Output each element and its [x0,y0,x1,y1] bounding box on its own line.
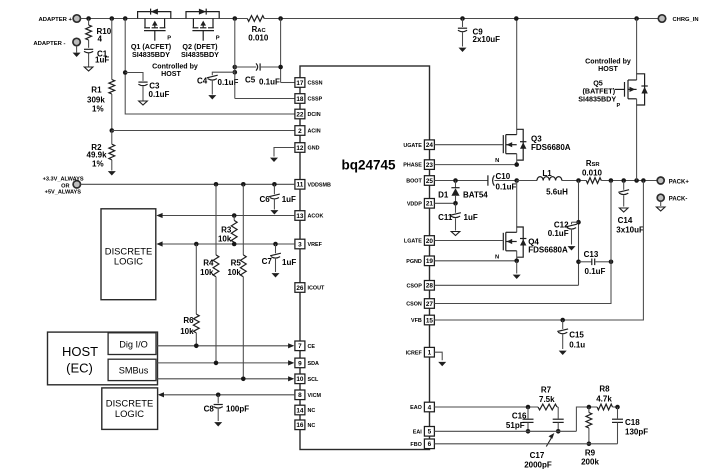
IC U1 bq24745 body [300,66,430,450]
wire VDDP pin 21 [434,201,457,206]
resistor R3 10k [218,213,237,244]
svg-text:ADAPTER -: ADAPTER - [33,41,65,47]
pin 24 UGATE [403,140,434,150]
svg-text:NC: NC [308,408,316,414]
svg-text:SI4835BDY: SI4835BDY [132,50,170,59]
resistor R5 10k [227,182,246,379]
capacitor C14 3x10uF with ground [616,181,644,235]
wire SCL from SMBus to pin 10 [156,376,294,381]
capacitor C17 2000pF [524,407,563,469]
svg-text:PHASE: PHASE [403,163,422,169]
svg-text:LGATE: LGATE [404,239,422,245]
pin 5 EAI [413,427,435,437]
wire EAI pin 5 [434,405,597,432]
inductor L1 5.6uH [517,169,587,196]
resistor R8 4.7k [596,384,620,410]
block HOST (EC) [48,332,158,385]
wire CSON pin 27 to sense- [434,181,611,304]
capacitor C5 [233,63,281,86]
capacitor C8 100pF with ground [204,395,250,427]
svg-text:VICM: VICM [308,393,322,399]
svg-text:VREF: VREF [308,242,323,248]
svg-text:R8: R8 [599,384,610,393]
capacitor C15 0.1u with ground [557,320,585,355]
svg-text:DISCRETE: DISCRETE [106,397,153,408]
svg-text:+5V_ALWAYS: +5V_ALWAYS [45,190,82,196]
wire VDDSMB rail to pin 11 [81,183,295,185]
svg-text:1uF: 1uF [282,195,296,204]
wire ACOK to discrete logic [156,213,295,218]
pin 12 GND [295,143,320,153]
svg-text:(EC): (EC) [66,361,93,376]
svg-text:Dig I/O: Dig I/O [119,340,148,350]
svg-text:SCL: SCL [308,377,319,383]
svg-text:16: 16 [296,422,304,429]
svg-text:R5: R5 [231,258,242,267]
svg-text:13: 13 [296,213,304,220]
wire PGND pin 19 and ground [434,259,520,280]
svg-text:10k: 10k [227,268,241,277]
svg-text:C7: C7 [262,257,273,266]
svg-text:NC: NC [308,423,316,429]
svg-text:7.5k: 7.5k [539,395,555,404]
svg-text:P: P [617,103,621,109]
pin 22 DCIN [295,109,321,119]
pin 1 ICREF [406,347,435,357]
svg-text:0.1uF: 0.1uF [149,90,170,99]
terminal +3.3V_ALWAYS OR +5V_ALWAYS [43,176,84,195]
pin 25 BOOT [406,176,434,186]
svg-text:24: 24 [426,142,434,149]
label Controlled by HOST (left) [152,62,198,78]
svg-text:1%: 1% [92,105,104,114]
wire VREF to discrete logic [156,241,295,246]
svg-text:PGND: PGND [406,259,422,265]
capacitor C6 1uF with ground [259,182,296,215]
pin 10 SCL [295,374,319,384]
terminal PACK+ [657,177,689,185]
svg-text:DISCRETE: DISCRETE [105,245,152,256]
svg-text:14: 14 [296,407,304,414]
svg-text:bq24745: bq24745 [341,158,396,173]
svg-text:Controlled by: Controlled by [585,57,631,65]
ground at pin 1 ICREF [434,352,446,366]
svg-text:SMBus: SMBus [119,365,149,375]
svg-text:CSSP: CSSP [308,97,323,103]
svg-text:BOOT: BOOT [406,179,422,185]
transistor Q5 (BATFET) SI4835BDY [578,19,648,181]
pin 3 VREF [295,239,323,249]
svg-text:VDDSMB: VDDSMB [308,182,331,188]
svg-text:N: N [495,254,499,260]
wire CSSN vertical x=280.6 [278,16,295,82]
svg-text:7: 7 [298,343,302,350]
svg-text:C13: C13 [584,250,599,259]
svg-text:25: 25 [426,178,434,185]
svg-text:26: 26 [296,285,304,292]
svg-text:ACIN: ACIN [308,129,321,135]
svg-text:HOST: HOST [161,70,181,78]
svg-text:0.1uF: 0.1uF [585,267,606,276]
resistor Rac 0.010 [247,16,269,43]
capacitor C12 0.1uF with ground [548,181,581,286]
svg-text:17: 17 [296,80,304,87]
svg-text:9: 9 [298,360,302,367]
svg-text:FDS6680A: FDS6680A [531,143,571,152]
svg-text:51pF: 51pF [506,421,525,430]
node ACIN junction [110,128,115,133]
svg-text:R4: R4 [203,258,214,267]
svg-text:C8: C8 [204,405,215,414]
svg-text:100pF: 100pF [226,405,249,414]
svg-text:ICOUT: ICOUT [308,286,325,292]
svg-text:BAT54: BAT54 [463,190,488,199]
svg-text:CSSN: CSSN [308,81,323,87]
svg-text:5: 5 [428,429,432,436]
pin 2 ACIN [295,126,321,136]
transistor Q4 FDS6680A [434,181,568,261]
pin 18 CSSP [295,94,323,104]
wire FBO pin 6 [434,443,617,445]
svg-text:FDS6680A: FDS6680A [528,245,568,254]
pin 26 ICOUT [295,283,325,293]
pin 16 NC [295,420,315,430]
svg-text:4: 4 [98,35,103,44]
svg-text:0.1u: 0.1u [569,340,585,349]
pin 15 VFB [411,315,434,325]
wire SDA from SMBus to pin 9 [156,360,294,365]
svg-text:20: 20 [426,238,434,245]
svg-text:2: 2 [298,128,302,135]
resistor R6 10k [180,244,199,346]
svg-text:LOGIC: LOGIC [114,256,143,267]
svg-text:22: 22 [296,111,304,118]
transistor Q3 FDS6680A [434,16,570,164]
svg-text:10: 10 [296,376,304,383]
svg-text:4: 4 [428,404,432,411]
block DISCRETE LOGIC (lower) [102,388,158,430]
wire VFB pin 15 to PACK+ [434,181,643,323]
node PACK+ rail dots [609,178,614,183]
svg-text:HOST: HOST [598,65,618,73]
svg-text:2x10uF: 2x10uF [473,35,501,44]
svg-text:SDA: SDA [308,361,319,367]
transistor Q1 (ACFET) SI4835BDY [131,9,172,59]
svg-text:FBO: FBO [410,442,421,448]
svg-text:3: 3 [298,241,302,248]
pin 6 FBO [410,439,434,449]
resistor R7 7.5k [538,386,558,410]
capacitor C18 130pF [612,407,648,444]
svg-text:8: 8 [298,392,302,399]
pin 20 LGATE [404,236,434,246]
pin 27 CSON [406,299,434,309]
resistor Rsr 0.010 [582,159,657,184]
svg-text:P: P [167,35,171,41]
svg-text:1uF: 1uF [95,56,109,65]
svg-text:C6: C6 [259,195,270,204]
svg-text:D1: D1 [438,190,449,199]
svg-text:P: P [216,35,220,41]
svg-text:UGATE: UGATE [403,143,422,149]
pin 19 PGND [406,256,434,266]
svg-text:0.1uF: 0.1uF [496,182,517,191]
pin 7 CE [295,341,315,351]
wire PHASE pin 23 to switch node [434,162,519,167]
svg-text:1uF: 1uF [464,213,478,222]
svg-text:C14: C14 [618,216,633,225]
svg-text:DCIN: DCIN [308,112,321,118]
svg-text:C4: C4 [197,76,208,85]
resistor R4 10k [200,182,219,363]
pin 9 SDA [295,358,319,368]
svg-text:GND: GND [308,146,320,152]
capacitor C3 with ground [123,70,170,105]
svg-text:L1: L1 [542,169,552,178]
svg-text:4.7k: 4.7k [596,394,612,403]
svg-text:N: N [495,158,499,164]
svg-text:CSOP: CSOP [407,283,423,289]
svg-text:C11: C11 [438,213,453,222]
terminal PACK- with ground [656,194,687,211]
svg-text:0.1uF: 0.1uF [218,78,239,87]
pin 28 CSOP [407,281,435,291]
terminal ADAPTER+ [38,15,80,23]
svg-text:EAO: EAO [410,405,422,411]
capacitor C4 with ground [197,70,239,100]
svg-text:VDDP: VDDP [407,201,422,207]
block Dig I/O [108,333,156,355]
pin 14 NC [295,405,315,415]
svg-text:LOGIC: LOGIC [115,408,144,419]
terminal CHRG_IN [634,15,698,23]
resistor R10 [86,16,112,48]
svg-text:0.010: 0.010 [248,33,269,42]
block DISCRETE LOGIC (upper) [101,209,156,300]
svg-text:28: 28 [426,283,434,290]
pin 11 VDDSMB [295,180,331,190]
wire BOOT pin 25 [434,180,488,182]
svg-text:C5: C5 [245,76,256,85]
pin 8 VICM [295,390,322,400]
svg-text:11: 11 [297,182,304,189]
svg-text:PACK+: PACK+ [669,179,690,185]
svg-text:VFB: VFB [411,318,422,324]
svg-text:EAI: EAI [413,429,422,435]
capacitor C11 1uF with ground [438,203,478,235]
svg-text:C17: C17 [530,451,545,460]
svg-text:HOST: HOST [62,344,98,359]
svg-text:2000pF: 2000pF [524,460,552,469]
svg-text:21: 21 [426,201,434,208]
svg-text:10k: 10k [200,268,214,277]
svg-text:1: 1 [428,350,432,357]
svg-text:1uF: 1uF [282,258,296,267]
terminal ADAPTER- with ground [33,38,80,57]
svg-text:18: 18 [296,96,304,103]
svg-text:19: 19 [426,258,434,265]
svg-text:C10: C10 [496,172,511,181]
capacitor C13 0.1uF [576,250,613,276]
svg-text:R7: R7 [541,386,552,395]
transistor Q2 (DFET) SI4835BDY [181,9,220,59]
wire CSSP vertical x=234.8 [233,16,295,98]
svg-text:R3: R3 [221,225,232,234]
wire adapter+ rail [81,18,659,20]
wire VICM to discrete logic [158,392,295,397]
svg-text:10k: 10k [218,234,232,243]
capacitor C1 [84,49,109,71]
svg-text:+3.3V_ALWAYS: +3.3V_ALWAYS [43,176,84,182]
svg-text:R9: R9 [585,448,596,457]
svg-text:CHRG_IN: CHRG_IN [673,17,699,23]
wire CSOP pin 28 to sense+ [434,284,578,286]
svg-text:OR: OR [61,183,69,189]
svg-text:309k: 309k [87,96,105,105]
svg-text:0.010: 0.010 [582,168,603,177]
svg-text:0.1uF: 0.1uF [259,77,280,86]
diode D1 BAT54 [438,178,488,203]
svg-text:5.6uH: 5.6uH [546,188,568,197]
resistor R9 200k [581,407,599,467]
pin 17 CSSN [295,78,323,88]
ground at pin 12 GND [270,148,295,163]
svg-text:6: 6 [428,441,432,448]
pin 23 PHASE [403,160,434,170]
svg-text:SR: SR [592,162,601,168]
svg-text:ICREF: ICREF [406,350,423,356]
svg-text:ADAPTER +: ADAPTER + [38,17,72,23]
resistor R2 with ground [87,131,116,176]
svg-text:CE: CE [308,344,316,350]
pin 4 EAO [410,402,434,412]
svg-text:R6: R6 [183,316,194,325]
capacitor C7 1uF with ground [262,244,297,278]
svg-text:C18: C18 [625,418,640,427]
resistor R1 [87,16,115,130]
svg-text:R1: R1 [91,86,102,95]
block SMBus [108,359,156,380]
svg-text:130pF: 130pF [625,427,648,436]
svg-text:PACK-: PACK- [669,196,688,202]
wire EAO pin 4 [434,406,538,408]
pin 13 ACOK [295,211,324,221]
svg-text:SI4835BDY: SI4835BDY [578,94,616,103]
svg-text:1%: 1% [92,160,104,169]
capacitor C16 51pF [506,405,534,434]
svg-text:3x10uF: 3x10uF [616,225,644,234]
svg-text:10k: 10k [180,327,194,336]
svg-text:12: 12 [296,145,304,152]
svg-text:200k: 200k [581,458,599,467]
svg-text:SI4835BDY: SI4835BDY [181,50,219,59]
pin 21 VDDP [407,199,435,209]
svg-text:ACOK: ACOK [308,214,324,220]
svg-text:0.1uF: 0.1uF [548,229,569,238]
capacitor C10 0.1uF [488,172,519,191]
node L1-Rsr junction [576,178,581,183]
svg-text:C16: C16 [512,412,527,421]
wire CE from Dig I/O to pin 7 [156,343,294,348]
svg-text:CSON: CSON [406,302,422,308]
capacitor C9 2x10uF with ground [458,16,500,52]
svg-text:15: 15 [426,317,434,324]
svg-text:23: 23 [426,162,434,169]
wire ACIN to pin 2 [112,130,295,132]
svg-text:C15: C15 [569,331,584,340]
svg-text:49.9k: 49.9k [87,151,108,160]
svg-text:27: 27 [426,301,434,308]
wire DCIN from rail to pin 22 [123,16,295,114]
